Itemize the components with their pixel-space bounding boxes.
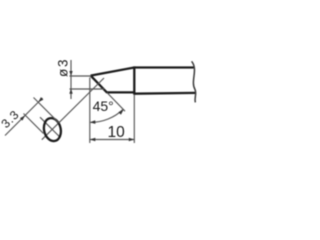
bevel thin extension (45deg leg) xyxy=(107,93,125,112)
tip bottom profile xyxy=(106,91,134,93)
bevel face ellipse xyxy=(42,116,63,142)
dim10 left extension line xyxy=(89,78,91,144)
angle 45 arc arrow left xyxy=(90,120,96,124)
dia3 top extension line xyxy=(70,75,92,77)
dim3.3 arrow upper xyxy=(38,97,43,102)
face view axis centerline xyxy=(42,78,104,140)
dia3 dimension line vertical xyxy=(70,60,72,99)
cylinder top edge xyxy=(134,66,193,68)
break squiggle xyxy=(192,61,196,102)
face view minor centerline xyxy=(40,117,60,137)
dim10 arrow left xyxy=(90,138,96,142)
svg-text:45°: 45° xyxy=(93,98,114,114)
dim10 arrow right xyxy=(129,138,135,142)
cylinder left face xyxy=(133,66,135,94)
dim3.3 dimension line xyxy=(5,98,43,136)
dim10 dimension line xyxy=(90,139,135,141)
dim3.3 arrow lower xyxy=(20,116,25,121)
angle 45 arc arrow upper xyxy=(118,110,123,115)
dia3 arrow down xyxy=(69,71,72,76)
bevel face edge xyxy=(91,76,107,93)
dim10 right extension line xyxy=(133,95,135,143)
dia3 bottom extension line xyxy=(70,88,105,90)
dim3.3 extension line B xyxy=(24,114,44,134)
svg-text:ø3: ø3 xyxy=(55,58,70,77)
svg-text:10: 10 xyxy=(108,124,126,141)
tip taper top profile xyxy=(91,68,135,76)
dim3.3 extension line A xyxy=(34,98,60,124)
angle 45 arc xyxy=(91,109,124,122)
dia3 arrow up xyxy=(69,89,72,94)
cylinder bottom edge xyxy=(134,92,195,95)
svg-text:3.3: 3.3 xyxy=(0,107,22,131)
